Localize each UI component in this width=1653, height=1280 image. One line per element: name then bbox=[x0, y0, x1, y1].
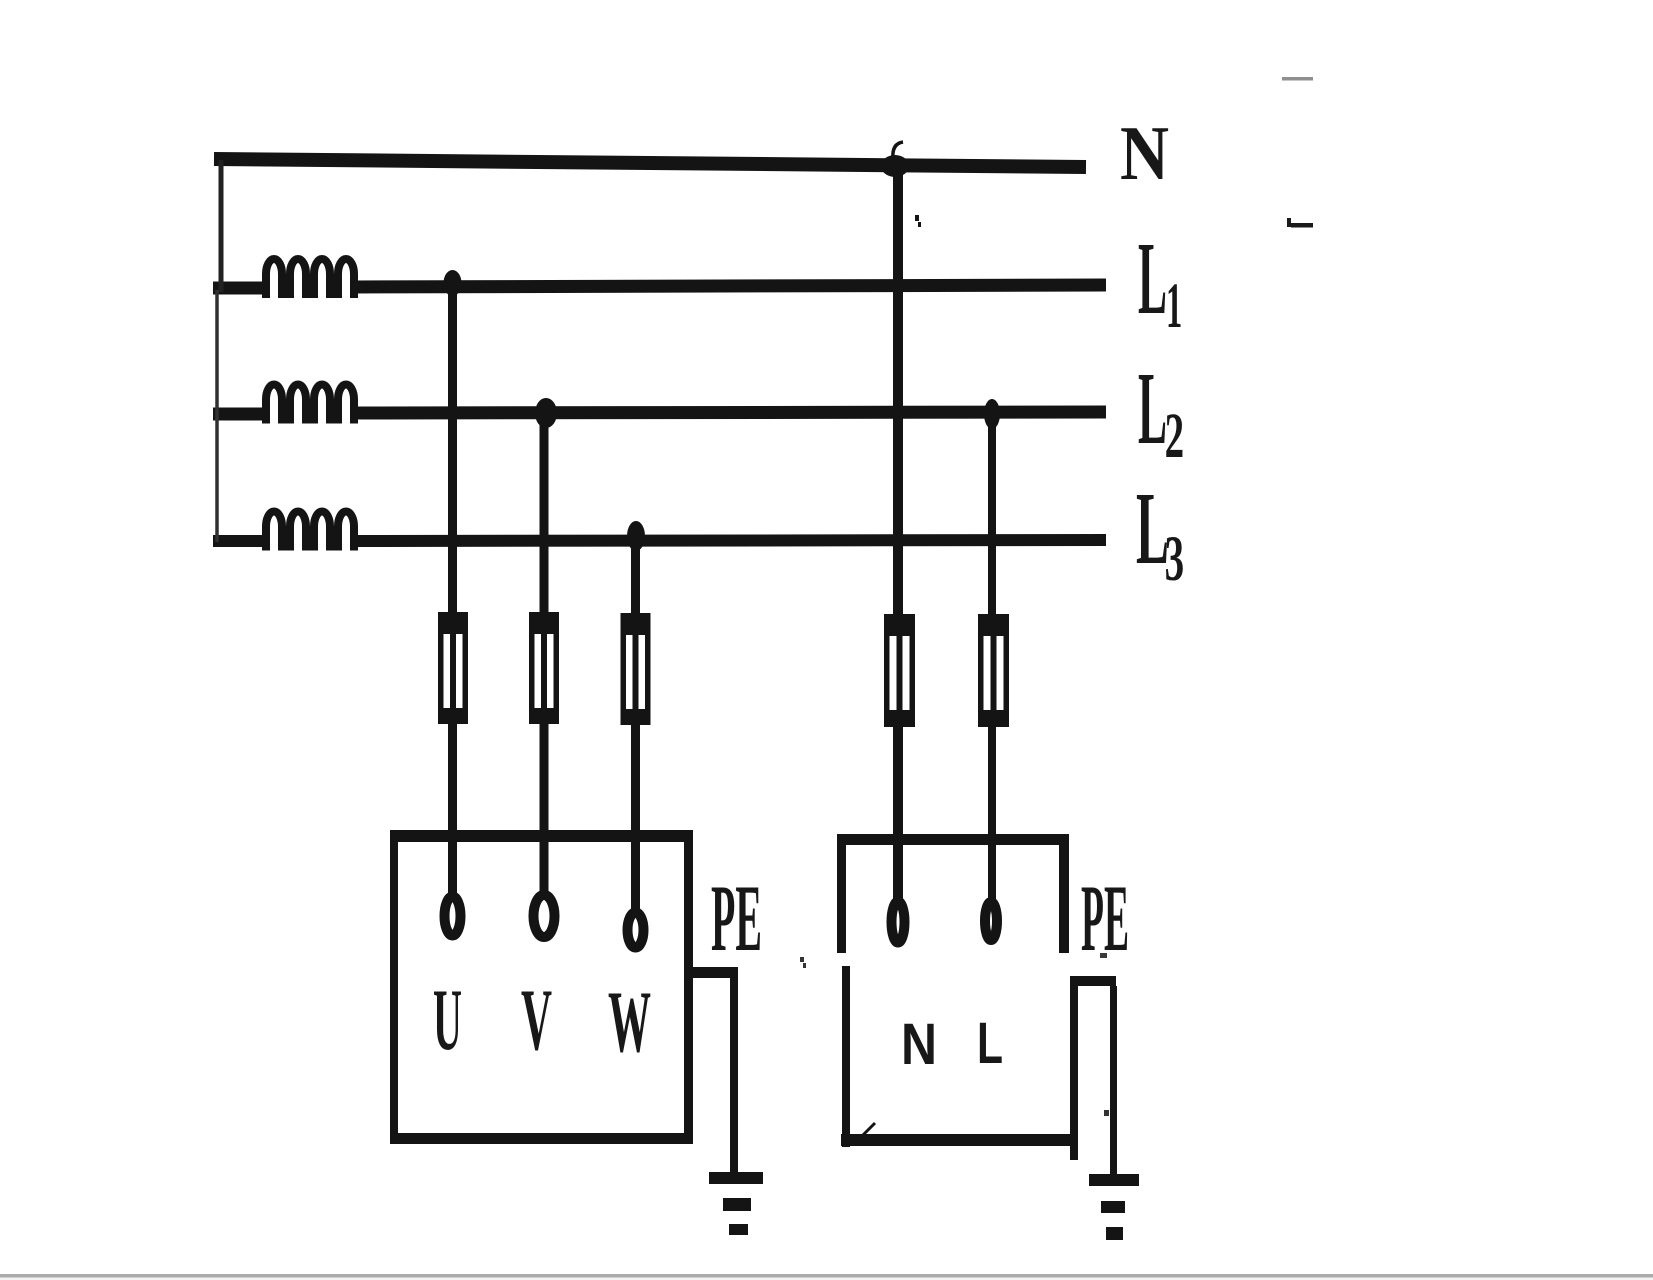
svg-text:1: 1 bbox=[1166, 270, 1182, 342]
svg-text:2: 2 bbox=[1165, 399, 1184, 472]
svg-text:U: U bbox=[433, 972, 462, 1069]
svg-text:PE: PE bbox=[711, 865, 762, 971]
svg-text:W: W bbox=[608, 974, 651, 1071]
svg-text:L: L bbox=[1138, 221, 1167, 336]
svg-text:L: L bbox=[1138, 351, 1167, 466]
svg-text:L: L bbox=[977, 1011, 1003, 1076]
svg-text:N: N bbox=[1120, 110, 1169, 196]
svg-text:V: V bbox=[521, 972, 552, 1069]
svg-text:N: N bbox=[901, 1012, 937, 1077]
svg-text:3: 3 bbox=[1165, 522, 1184, 595]
